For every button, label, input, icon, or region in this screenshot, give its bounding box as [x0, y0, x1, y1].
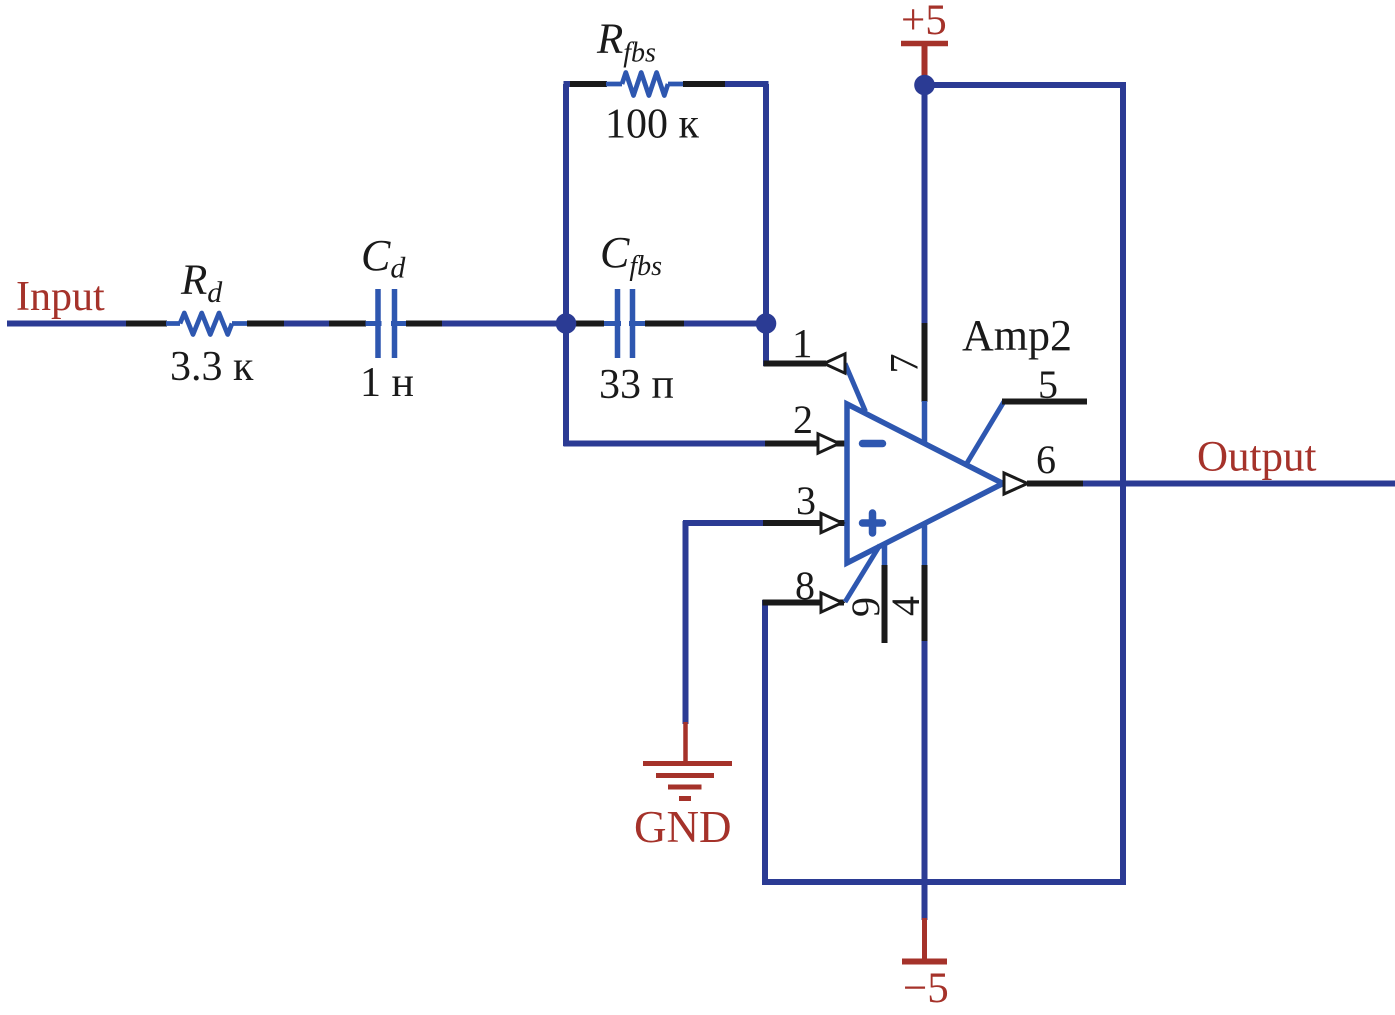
pin 8 lead (black)	[763, 600, 845, 606]
pin 8 arrow	[821, 593, 842, 612]
ground symbol GND	[643, 722, 732, 799]
svg-text:Amp2: Amp2	[962, 311, 1072, 360]
pin 1 diagonal	[845, 364, 866, 412]
wire right loop vertical	[1120, 82, 1126, 885]
node A junction	[556, 313, 577, 334]
wire bottom horizontal of right loop	[762, 879, 1126, 885]
pin 7 lead (black)	[922, 323, 928, 402]
power rail vertical to -5	[922, 641, 928, 920]
svg-text:6: 6	[1036, 437, 1056, 482]
op-amp plus sign	[863, 513, 883, 533]
pin 1 lead (black)	[764, 361, 827, 367]
pin lead (black) left of R_fbs	[570, 81, 607, 87]
wire top horizontal of right loop	[922, 82, 1126, 88]
wire GND vertical	[683, 521, 689, 724]
svg-text:+5: +5	[901, 0, 947, 44]
svg-text:7: 7	[882, 354, 927, 374]
resistor R_d	[166, 313, 248, 335]
pin 3 arrow	[821, 513, 842, 532]
+5 power symbol	[901, 0, 948, 78]
wire C_d to node A	[442, 321, 566, 327]
resistor R_fbs	[606, 73, 684, 96]
wire: input segment	[7, 321, 127, 327]
pin 2 lead (black)	[765, 441, 845, 447]
svg-text:3: 3	[796, 478, 816, 523]
power rail vertical through op-amp	[922, 401, 928, 566]
svg-text:Input: Input	[16, 274, 105, 320]
pin 4 lead (black)	[922, 565, 928, 642]
wire node A down to pin2 row	[563, 324, 569, 446]
pin lead (black) right of R_fbs	[683, 81, 726, 87]
svg-text:4: 4	[883, 596, 928, 616]
wire: feedback loop top right	[725, 81, 769, 87]
op-amp minus sign	[863, 440, 883, 448]
pin lead (black) left of R_d	[126, 321, 167, 327]
op-amp U1 (Amp2) triangle	[847, 404, 1003, 563]
pin 2 arrow	[818, 434, 839, 453]
svg-text:100 к: 100 к	[605, 102, 700, 148]
svg-text:1: 1	[792, 320, 813, 366]
svg-text:33 п: 33 п	[599, 362, 674, 408]
capacitor C_d	[366, 289, 408, 358]
pin 5 diagonal	[967, 402, 1004, 464]
wire: feedback loop right vertical	[763, 84, 769, 324]
pin 8 diagonal	[845, 545, 880, 602]
pin lead (black) right of C_fbs	[645, 321, 685, 327]
pin lead (black) left of C_fbs	[575, 321, 604, 327]
svg-text:5: 5	[1038, 362, 1058, 407]
pin lead (black) left of C_d	[329, 321, 366, 327]
node B junction	[756, 313, 777, 334]
wire pin3 row horizontal	[683, 520, 764, 526]
svg-text:1 н: 1 н	[360, 360, 414, 406]
svg-text:8: 8	[795, 563, 815, 608]
capacitor C_fbs	[604, 289, 646, 358]
svg-text:Output: Output	[1197, 434, 1317, 481]
wire node B down to pin1 row	[763, 324, 769, 366]
svg-text:3.3 к: 3.3 к	[170, 344, 254, 390]
wire pin8 vertical down	[762, 600, 768, 885]
power rail vertical (pin 7 / pin 4 column)	[922, 85, 928, 324]
svg-text:−5: −5	[903, 965, 949, 1012]
pin 6 lead (black)	[1027, 481, 1084, 487]
wire between R_d and C_d	[284, 321, 330, 327]
svg-text:GND: GND	[634, 802, 732, 852]
pin 3 lead (black)	[763, 520, 845, 526]
pin 1 arrow (points left)	[824, 354, 845, 373]
svg-text:9: 9	[843, 597, 888, 617]
pin 9 stub (blue part)	[882, 543, 888, 566]
wire pin2 row horizontal	[564, 441, 767, 447]
pin 9 lead (black)	[882, 565, 888, 643]
wire: feedback loop top left corner	[564, 81, 573, 87]
wire: feedback loop left vertical	[563, 84, 569, 324]
node at +5	[914, 75, 935, 96]
pin lead (black) right of C_d	[406, 321, 443, 327]
output wire	[1083, 481, 1395, 487]
svg-text:2: 2	[793, 397, 813, 442]
pin lead (black) right of R_d	[247, 321, 285, 327]
wire C_fbs to node B	[684, 321, 766, 327]
pin 5 lead (black)	[1002, 399, 1087, 405]
pin 6 output arrow	[1004, 473, 1028, 494]
-5 power symbol	[902, 918, 949, 1012]
